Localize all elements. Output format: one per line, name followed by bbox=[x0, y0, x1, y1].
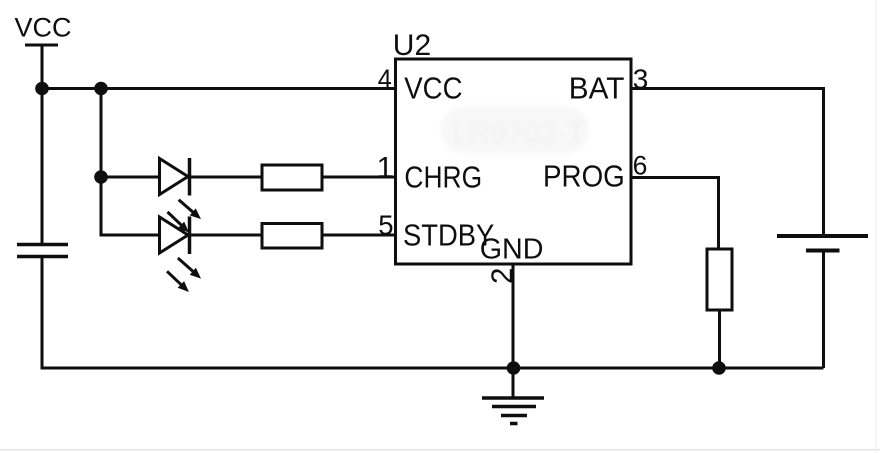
svg-text:VCC: VCC bbox=[404, 71, 462, 106]
svg-text:CHRG: CHRG bbox=[404, 161, 482, 195]
svg-text:1: 1 bbox=[377, 151, 394, 184]
svg-text:4: 4 bbox=[378, 63, 392, 95]
svg-text:VCC: VCC bbox=[15, 12, 72, 42]
svg-text:2: 2 bbox=[486, 268, 519, 284]
svg-text:3: 3 bbox=[633, 64, 649, 95]
svg-text:PROG: PROG bbox=[543, 159, 625, 194]
svg-text:5: 5 bbox=[378, 209, 393, 240]
svg-text:GND: GND bbox=[480, 233, 544, 265]
svg-text:LR9702-T: LR9702-T bbox=[452, 117, 585, 150]
svg-text:BAT: BAT bbox=[569, 71, 625, 106]
svg-text:U2: U2 bbox=[393, 29, 431, 62]
svg-text:6: 6 bbox=[633, 150, 648, 180]
